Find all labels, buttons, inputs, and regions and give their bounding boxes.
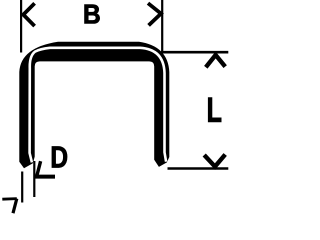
L top extension line — [161, 51, 228, 54]
L down arrow — [204, 155, 225, 167]
D lower arrow — [2, 197, 16, 200]
L bottom extension line — [168, 167, 229, 170]
B right arrow — [148, 3, 161, 25]
label D — [52, 147, 67, 168]
B left arrow — [23, 3, 34, 26]
D right extension line — [33, 161, 35, 197]
D left extension line — [21, 172, 23, 203]
B left extension line — [20, 0, 22, 53]
label B — [85, 5, 100, 24]
label L — [208, 98, 221, 122]
B right extension line — [161, 0, 163, 54]
L up arrow — [206, 55, 225, 67]
staple body (inverted U with chisel tips) — [19, 42, 169, 168]
staple highlight line (with tip slashes) — [30, 48, 167, 163]
D upper arrow — [37, 161, 41, 175]
